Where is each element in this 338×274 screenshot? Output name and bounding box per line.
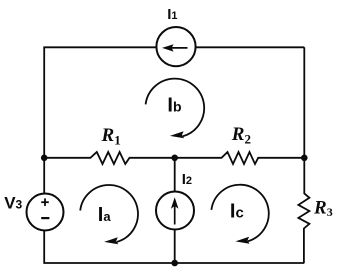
svg-text:Ic: Ic — [230, 201, 244, 223]
svg-text:V3: V3 — [4, 194, 22, 213]
svg-text:R2: R2 — [231, 124, 251, 147]
svg-text:R3: R3 — [313, 198, 333, 220]
svg-text:I2: I2 — [182, 171, 192, 188]
svg-text:R1: R1 — [101, 125, 121, 148]
svg-text:I1: I1 — [167, 6, 177, 23]
svg-text:Ib: Ib — [167, 94, 181, 116]
svg-text:Ia: Ia — [98, 204, 112, 226]
